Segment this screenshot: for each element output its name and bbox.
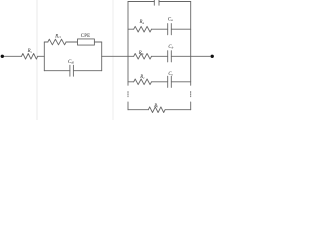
svg-text:Cb: Cb <box>168 45 173 50</box>
svg-text:Rc: Rc <box>139 75 145 80</box>
svg-text:CPE: CPE <box>81 34 91 39</box>
svg-text:Rct: Rct <box>54 34 60 39</box>
svg-text:Rb: Rb <box>138 51 144 56</box>
svg-text:Ca: Ca <box>168 17 173 22</box>
svg-text:Rl: Rl <box>153 104 158 109</box>
svg-text:Ra: Ra <box>139 20 145 25</box>
svg-text:Cdl: Cdl <box>68 60 74 65</box>
svg-text:Cc: Cc <box>168 72 173 77</box>
svg-text:Rs: Rs <box>27 49 33 54</box>
